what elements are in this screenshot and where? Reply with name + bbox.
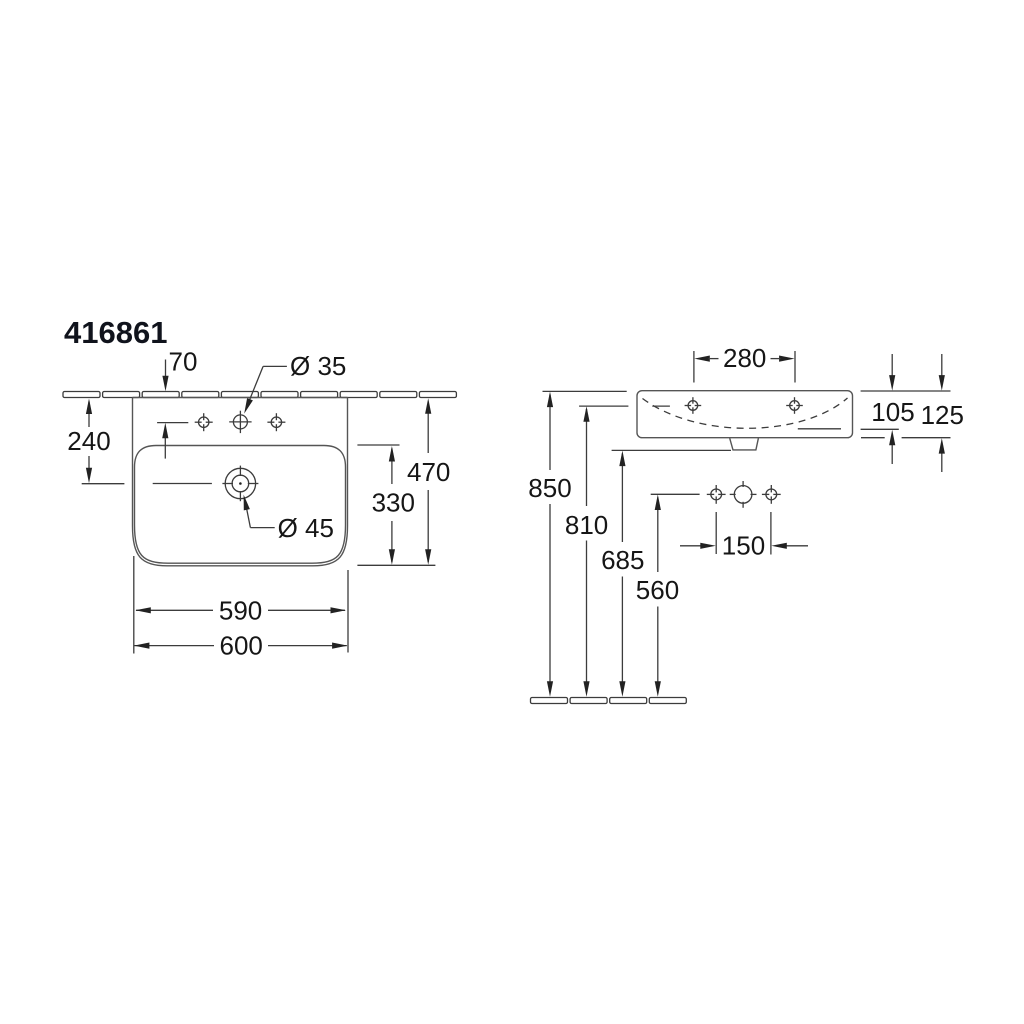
dimension 280 (fixing hole spacing) [693, 351, 695, 383]
svg-text:600: 600 [220, 631, 263, 661]
svg-text:850: 850 [528, 473, 571, 503]
extension line tap holes 560 [651, 493, 700, 495]
svg-text:590: 590 [219, 596, 262, 626]
extension line rim height 850 [543, 390, 627, 392]
svg-text:330: 330 [372, 488, 415, 518]
dimension 560 (tap hole height) [657, 498, 659, 573]
extension line underside 105 [861, 428, 899, 430]
extension line bowl top right [357, 444, 399, 446]
dimension 125 (overall depth) [941, 354, 943, 385]
svg-text:70: 70 [169, 347, 198, 377]
extension line fixing holes 810 [579, 405, 628, 407]
leader line and label Ø 35 [263, 365, 287, 367]
basin front outline [637, 391, 853, 438]
svg-text:280: 280 [723, 343, 766, 373]
extension line basin right bottom [347, 570, 349, 653]
leader line and label Ø 45 [250, 527, 274, 529]
left optional tap hole crosshair [199, 417, 209, 427]
dimension 105 (depth at edge) [891, 354, 893, 385]
dimension 810 (fixing hole height) [586, 409, 588, 506]
wall section hatch (plan view) [63, 392, 456, 398]
dimension 685 (outlet height) [621, 454, 623, 543]
extension line basin left bottom [133, 556, 135, 654]
svg-text:685: 685 [601, 545, 644, 575]
right optional tap hole crosshair [271, 417, 281, 427]
middle tap hole (Ø35) [233, 415, 247, 429]
basin outer outline (plan) [133, 398, 348, 566]
extension line basin top right [861, 390, 951, 392]
floor section hatch [531, 698, 687, 704]
svg-text:416861: 416861 [64, 315, 167, 350]
basin top edge at wall [133, 397, 348, 399]
fixing hole right [790, 401, 800, 411]
dimension 330 (bowl top to bottom) [391, 449, 393, 485]
bowl bottom dashed curve [643, 398, 848, 428]
svg-text:Ø 45: Ø 45 [278, 513, 334, 543]
drain hole (Ø45) circles and cross [225, 468, 255, 498]
fixing hole left [688, 401, 698, 411]
svg-text:105: 105 [871, 397, 914, 427]
drain outlet stub [730, 438, 759, 450]
svg-text:810: 810 [565, 510, 608, 540]
extension line basin bottom right [357, 564, 435, 566]
svg-text:240: 240 [67, 426, 110, 456]
tap hole group (reflected view) [711, 489, 722, 500]
dimension 850 (rim height) [549, 395, 551, 471]
svg-text:Ø 35: Ø 35 [290, 351, 346, 381]
drain centreline dash [153, 483, 212, 485]
dimension 590 (bowl width) [136, 609, 213, 611]
dimension 150 (tap hole spacing) [715, 512, 717, 554]
dimension 470 (wall to front bottom) [427, 402, 429, 454]
dimension 600 (basin width) [135, 645, 215, 647]
extension line basin bottom 125 [861, 437, 885, 439]
svg-text:150: 150 [722, 531, 765, 561]
underside ledge line inside basin [798, 428, 841, 430]
svg-text:560: 560 [636, 575, 679, 605]
svg-text:125: 125 [921, 400, 964, 430]
dimension 240 (wall to drain centre) [88, 402, 90, 428]
svg-text:470: 470 [407, 457, 450, 487]
dimension 70 (wall to tap hole row) [165, 360, 167, 385]
extension line drain outlet 685 [612, 449, 731, 451]
bowl inner outline [135, 446, 346, 564]
